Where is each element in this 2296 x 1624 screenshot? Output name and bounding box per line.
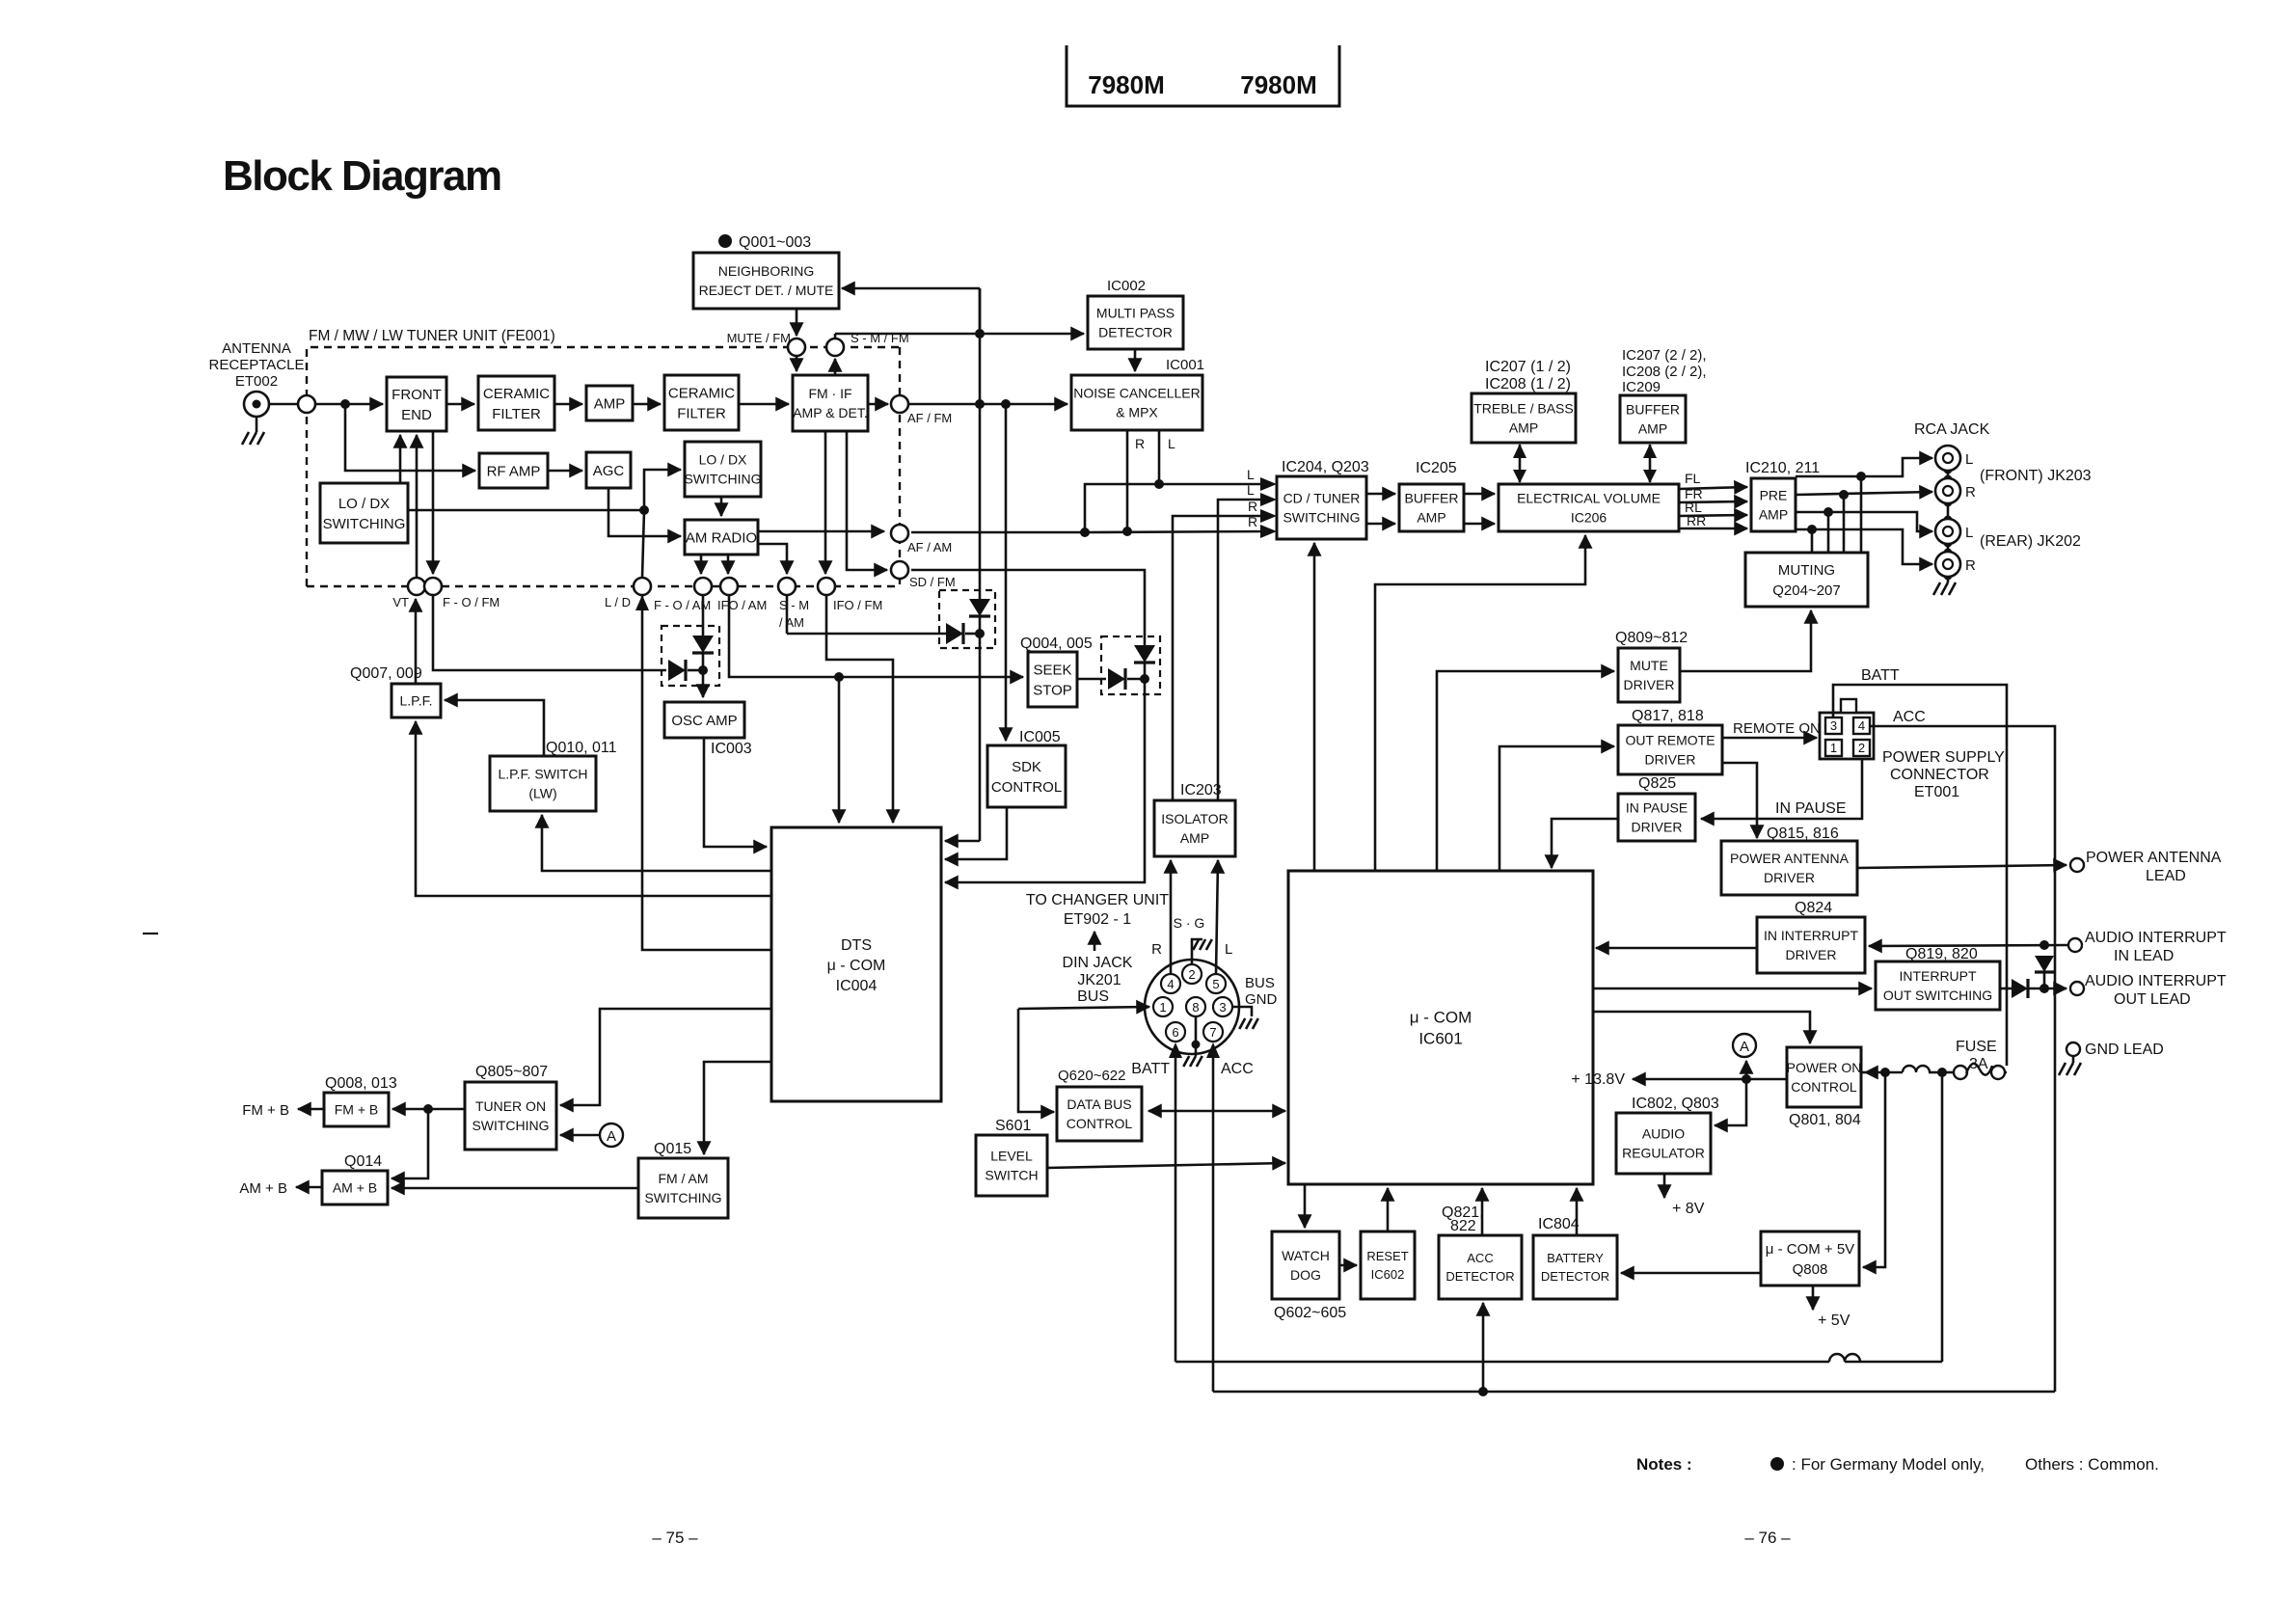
block MUTING Q204~207 [1745,553,1868,607]
wire FM-IF up to S-M/FM node [834,359,837,375]
svg-text:POWER SUPPLY: POWER SUPPLY [1882,749,2005,766]
wire IC601 to out remote driver [1499,746,1614,871]
arrow up to changer [1094,932,1096,951]
svg-text:BATT: BATT [1131,1061,1170,1077]
svg-text:PRE: PRE [1760,488,1788,503]
wire neighboring down to MUTE/FM node [796,309,798,336]
svg-text:– 76 –: – 76 – [1744,1529,1791,1547]
svg-text:POWER ANTENNA: POWER ANTENNA [1730,851,1850,866]
wire multipass down to noise canceller [1134,349,1137,371]
wire batt bus down [1941,1072,1944,1362]
svg-text:CERAMIC: CERAMIC [483,386,550,402]
lower ACC bus [1213,1391,2055,1394]
wire +8V out [1663,1174,1666,1198]
svg-text:7: 7 [1209,1025,1216,1040]
svg-text:RCA JACK: RCA JACK [1914,421,1990,438]
svg-text:AUDIO INTERRUPT: AUDIO INTERRUPT [2085,973,2227,989]
block POWER ANTENNA DRIVER [1721,841,1857,895]
svg-text:ELECTRICAL VOLUME: ELECTRICAL VOLUME [1517,491,1661,506]
svg-text:4: 4 [1167,977,1174,991]
wire reset to IC601 [1387,1188,1390,1232]
svg-text:ACC: ACC [1467,1251,1493,1265]
wire L/D node down to DTS [642,510,644,578]
wire F-O/FM from front end down [432,431,435,574]
svg-text:(LW): (LW) [528,786,556,801]
svg-text:VT: VT [392,595,409,609]
bullet Q001~003 label [718,234,732,248]
svg-text:STOP: STOP [1033,682,1072,698]
svg-text:ET002: ET002 [235,373,278,390]
svg-text:SWITCH: SWITCH [985,1168,1038,1183]
svg-text:μ - COM: μ - COM [827,958,886,974]
wire in pause driver to IC601 [1552,819,1618,868]
svg-text:FL: FL [1685,471,1701,486]
block SDK CONTROL [987,745,1066,807]
svg-text:Q010, 011: Q010, 011 [546,740,617,756]
tuner unit dashed boundary FE001 [307,347,900,586]
svg-text:R: R [1965,557,1976,574]
svg-text:IC602: IC602 [1371,1267,1405,1282]
wire am+b out [296,1186,322,1189]
svg-text:L.P.F. SWITCH: L.P.F. SWITCH [498,767,587,782]
svg-text:ET001: ET001 [1914,784,1959,800]
svg-text:BATTERY: BATTERY [1547,1251,1604,1265]
wire mute driver to muting [1680,610,1811,671]
svg-text:POWER ON: POWER ON [1787,1060,1862,1075]
wire IFO/AM to seek stop [727,555,730,574]
block L.P.F. SWITCH (LW) [490,756,596,811]
wire power antenna lead [1857,865,2066,868]
svg-text:IC804: IC804 [1538,1216,1580,1232]
svg-text:GND LEAD: GND LEAD [2085,1042,2164,1058]
svg-text:LO / DX: LO / DX [338,496,390,512]
svg-text:DRIVER: DRIVER [1624,677,1675,692]
block OSC AMP [664,702,744,738]
svg-text:L: L [1168,436,1175,451]
wire DTS to fm/am switching [704,1062,771,1154]
svg-text:DRIVER: DRIVER [1764,870,1815,885]
svg-text:FILTER: FILTER [492,406,541,422]
svg-text:OUT LEAD: OUT LEAD [2114,991,2191,1008]
ground antenna [256,417,258,432]
svg-text:AMP & DET.: AMP & DET. [793,405,868,420]
svg-text:FM + B: FM + B [335,1102,379,1118]
diode D1 vertical [692,636,714,653]
block WATCH DOG [1272,1232,1339,1299]
node VT [408,578,425,595]
svg-text:7980M: 7980M [1088,70,1165,99]
svg-text:R: R [1965,484,1976,501]
block IN PAUSE DRIVER [1618,794,1695,841]
node IFO/FM [818,578,835,595]
svg-text:LEAD: LEAD [2146,868,2186,884]
wire watch dog to reset [1339,1264,1357,1267]
node S-M/FM [826,338,844,356]
svg-text:AGC: AGC [593,463,625,479]
A node right [1733,1034,1756,1057]
svg-text:F - O / FM: F - O / FM [443,595,500,609]
svg-text:BUS: BUS [1245,975,1275,991]
wire cf2 to fmif [739,403,789,406]
wire rf amp feed [345,404,475,471]
wire lpf up to VT node [415,599,418,684]
svg-text:IC206: IC206 [1571,510,1607,526]
block TUNER ON SWITCHING [465,1082,556,1150]
svg-text:RECEPTACLE: RECEPTACLE [209,357,305,373]
svg-text:Q815, 816: Q815, 816 [1767,826,1839,842]
svg-text:CONTROL: CONTROL [991,779,1062,796]
svg-text:SWITCHING: SWITCHING [1283,510,1360,526]
svg-text:L: L [1965,451,1973,468]
svg-text:FM · IF: FM · IF [808,386,851,401]
svg-text:IN INTERRUPT: IN INTERRUPT [1764,928,1858,943]
node AF/AM [891,525,908,542]
svg-text:Block Diagram: Block Diagram [223,152,501,200]
block DTS u-COM IC004 [771,827,941,1101]
svg-text:Q809~812: Q809~812 [1615,630,1688,646]
svg-text:AUDIO INTERRUPT: AUDIO INTERRUPT [2085,930,2227,946]
wire fm/am switching to am+b [392,1187,638,1190]
svg-text:2: 2 [1188,967,1195,982]
gnd lead [2066,1042,2080,1056]
block FM +B [324,1093,389,1126]
wire SD/FM to diode D3 vertical [911,570,1145,645]
wire lpf switch to lpf [445,700,544,756]
diode from in lead down [2035,956,2054,972]
svg-text:1: 1 [1830,741,1837,755]
wire AF/FM to noise canceller [908,403,1067,406]
wire +5V out [1812,1286,1815,1310]
fuse and coil line into power on control [1861,1071,1865,1074]
rca jack front R [1935,478,1960,503]
upper BATT bus with coil [1175,1361,1829,1364]
block BATTERY DETECTOR [1533,1235,1617,1299]
wire rf amp to agc [548,470,582,473]
wires cd/tuner to buffer to elvol [1366,493,1395,496]
node L/D [634,578,651,595]
wire lo/dx top feedback to front end [399,435,402,483]
diode D3 vertical [1134,645,1155,663]
svg-text:DATA BUS: DATA BUS [1067,1096,1131,1112]
wire u-com5v to battery detector [1621,1272,1761,1275]
svg-text:AMP: AMP [1638,421,1667,437]
wire acc bus to acc detector [1482,1303,1485,1392]
din pins [1182,964,1202,984]
svg-text:LO / DX: LO / DX [699,452,747,468]
svg-text:Q007, 009: Q007, 009 [350,665,422,682]
wire F-O/AM down to diode D1 vertical [702,595,705,636]
svg-text:2: 2 [1858,741,1865,755]
svg-text:SWITCHING: SWITCHING [472,1118,549,1133]
block MULTI PASS DETECTOR [1088,296,1183,349]
wire tuner-on to fm+b [392,1108,465,1111]
block AM +B [322,1171,388,1204]
svg-text:3A: 3A [1969,1056,1988,1072]
wire +13.8V branch [1633,1078,1787,1081]
svg-text:Q808: Q808 [1793,1261,1828,1278]
svg-text:NOISE CANCELLER: NOISE CANCELLER [1073,386,1200,401]
svg-text:REMOTE ON: REMOTE ON [1733,720,1821,737]
svg-text:Q824: Q824 [1795,900,1832,916]
block L.P.F. [392,684,441,717]
svg-text:IC004: IC004 [836,978,878,994]
node AF/FM [891,395,908,413]
svg-text:1: 1 [1159,1000,1166,1015]
svg-text:L: L [1965,525,1973,541]
svg-text:IC207 (1 / 2): IC207 (1 / 2) [1485,359,1571,375]
svg-text:FRONT: FRONT [392,387,442,403]
svg-text:IC207 (2 / 2),: IC207 (2 / 2), [1622,347,1707,364]
svg-text:DOG: DOG [1290,1267,1321,1283]
block LO/DX SWITCHING left [320,483,408,543]
block ISOLATOR AMP [1154,800,1235,856]
block u-COM IC601 [1288,871,1593,1184]
wire MUTE/FM into FM-IF [796,356,798,371]
svg-text:Q825: Q825 [1638,775,1676,792]
wire down to audio regulator [1715,1079,1746,1125]
block BUFFER AMP mid [1399,484,1464,531]
rca ground chain [1947,470,1950,582]
svg-text:(FRONT) JK203: (FRONT) JK203 [1980,468,2092,484]
wire amp to cf2 [633,403,661,406]
svg-text:Q001~003: Q001~003 [739,234,811,251]
svg-text:ACC: ACC [1893,709,1926,725]
svg-text:MULTI PASS: MULTI PASS [1096,306,1175,321]
svg-text:IC205: IC205 [1416,460,1457,476]
svg-text:IC002: IC002 [1107,278,1146,294]
svg-text:IC208 (2 / 2),: IC208 (2 / 2), [1622,364,1707,380]
double arrows treble/bass and buffer to elvol [1519,445,1522,482]
svg-text:OSC AMP: OSC AMP [671,713,737,729]
wire up to A node [1745,1061,1748,1079]
wire diode D3 to DTS [945,679,1145,882]
wire remote on to connector [1722,737,1817,740]
wire in pause from connector [1701,759,1862,819]
block RF AMP [479,453,548,488]
wire antenna to front end [269,403,298,406]
svg-text:L.P.F.: L.P.F. [400,693,433,709]
svg-text:IFO / FM: IFO / FM [833,598,882,612]
wire AF/AM row to CD/TUNER R [758,530,884,533]
header tab 7980M [1067,45,1339,106]
svg-text:(REAR) JK202: (REAR) JK202 [1980,533,2081,550]
wire L line pin5 to isolator [1216,860,1218,974]
svg-text:SWITCHING: SWITCHING [644,1190,721,1205]
wire bus into pin1 [1018,1007,1149,1009]
wire BATT up into pin6 [1175,1045,1177,1362]
svg-text:MUTE: MUTE [1630,658,1668,673]
wire lo/dx right down to am radio [720,497,723,516]
svg-text:CONNECTOR: CONNECTOR [1890,767,1989,783]
block AGC [586,452,631,488]
svg-text:DRIVER: DRIVER [1786,947,1837,962]
svg-text:END: END [401,407,432,423]
block FRONT END [387,377,446,431]
block CERAMIC FILTER 2 [664,375,739,430]
block CERAMIC FILTER 1 [478,376,554,430]
block ELECTRICAL VOLUME IC206 [1499,484,1679,531]
wire to u-com+5v [1863,1072,1885,1267]
block BUFFER AMP right [1620,395,1686,443]
wire IC601 to watch dog [1304,1184,1307,1228]
svg-text:Q801, 804: Q801, 804 [1789,1112,1861,1128]
svg-text:RESET: RESET [1366,1249,1408,1263]
wire dts to lpf switch [542,815,771,871]
node S-M/AM [778,578,796,595]
svg-text:Q004, 005: Q004, 005 [1020,636,1093,652]
svg-text:S - M / FM: S - M / FM [851,331,909,345]
wire lo/dx left to node and branches [408,509,644,512]
svg-text:A: A [1740,1039,1749,1055]
block u-COM+5V Q808 [1761,1232,1859,1286]
svg-text:DIN JACK: DIN JACK [1063,955,1133,971]
wire vertical sig to DTS via diode box D2 [979,288,982,334]
wire bus to data bus control [1018,1009,1054,1112]
svg-text:/ AM: / AM [779,615,804,630]
block AUDIO REGULATOR [1616,1113,1711,1174]
svg-text:BUFFER: BUFFER [1626,402,1680,418]
wire interrupt out via diode [2000,988,2012,990]
wire fm+b out [298,1108,324,1111]
power supply connector ET001 [1820,713,1874,759]
wire in interrupt driver to IC601 [1596,947,1757,950]
svg-text:REGULATOR: REGULATOR [1622,1146,1705,1161]
svg-text:IN PAUSE: IN PAUSE [1775,800,1847,817]
svg-text:R: R [1248,499,1257,514]
svg-text:7980M: 7980M [1240,70,1317,99]
svg-text:+ 5V: + 5V [1818,1313,1850,1329]
wire front end to ceramic filter [446,403,474,406]
block RESET IC602 [1361,1232,1415,1299]
svg-text:TREBLE / BASS: TREBLE / BASS [1473,401,1573,417]
block NOISE CANCELLER & MPX [1071,375,1202,430]
svg-text:AUDIO: AUDIO [1642,1126,1685,1142]
block IN INTERRUPT DRIVER [1757,917,1865,973]
svg-text:SWITCHING: SWITCHING [323,516,406,532]
svg-text:– 75 –: – 75 – [652,1529,698,1547]
wire acc detector to IC601 [1481,1188,1484,1235]
svg-text:ANTENNA: ANTENNA [222,340,291,357]
wire fmif to AF/FM node [868,403,888,406]
dashed diode box D1 [662,626,719,686]
svg-text:DETECTOR: DETECTOR [1541,1269,1609,1284]
svg-text:: For Germany Model only,: : For Germany Model only, [1792,1455,1985,1474]
wire branch down to DTS [838,677,841,823]
wire neighboring feed from S-M line [842,287,980,290]
wire AM RADIO to F-O/AM IFO/AM [700,555,703,574]
svg-text:IC210, 211: IC210, 211 [1745,460,1820,476]
svg-text:8: 8 [1192,1000,1199,1015]
svg-text:MUTING: MUTING [1778,562,1835,579]
wire noise canceller R L outputs [1126,430,1129,531]
block INTERRUPT OUT SWITCHING [1876,961,2000,1010]
wires elvol to preamp FL FR RL RR [1679,487,1747,489]
din jack JK201 circle [1145,960,1239,1054]
svg-text:AF / AM: AF / AM [907,540,952,555]
svg-text:SD / FM: SD / FM [909,575,956,589]
block AMP [586,386,633,420]
wire DTS to tuner-on switching [560,1009,771,1105]
svg-text:L / D: L / D [605,595,631,609]
svg-text:Q014: Q014 [344,1153,382,1170]
svg-text:Others : Common.: Others : Common. [2025,1455,2159,1474]
wire dts to lpf [416,721,771,896]
svg-text:5: 5 [1212,977,1219,991]
wire IC601 to power on control [1593,1012,1810,1043]
svg-text:OUT SWITCHING: OUT SWITCHING [1883,988,1992,1003]
svg-text:IC802, Q803: IC802, Q803 [1632,1096,1719,1112]
wire ACC from pin4 [1870,726,2055,1392]
svg-text:DRIVER: DRIVER [1632,820,1683,835]
svg-text:DETECTOR: DETECTOR [1098,325,1173,340]
dashed diode box D2 [939,590,995,648]
svg-text:L: L [1225,941,1232,958]
svg-text:DETECTOR: DETECTOR [1445,1269,1514,1284]
node MUTE/FM [788,338,805,356]
svg-text:DRIVER: DRIVER [1645,752,1696,768]
svg-text:RF AMP: RF AMP [487,463,541,479]
wire IFO/FM to DTS [824,431,827,574]
wire R line pin4 to isolator [1170,860,1173,974]
svg-text:IFO / AM: IFO / AM [717,598,767,612]
svg-text:IC204, Q203: IC204, Q203 [1282,459,1369,475]
diode D3 horizontal [1108,668,1125,690]
rca jack rear R [1935,552,1960,577]
svg-text:& MPX: & MPX [1116,405,1158,420]
svg-text:AM + B: AM + B [333,1180,377,1196]
block DATA BUS CONTROL [1057,1087,1142,1141]
svg-text:Q204~207: Q204~207 [1772,582,1840,599]
svg-text:S - M: S - M [779,598,809,612]
svg-text:Q817, 818: Q817, 818 [1632,708,1704,724]
block AM RADIO [685,520,758,555]
ground pin8 [1195,1016,1198,1056]
svg-text:FUSE: FUSE [1956,1039,1997,1055]
svg-text:MUTE / FM: MUTE / FM [727,331,791,345]
svg-text:Q620~622: Q620~622 [1058,1068,1125,1084]
svg-text:BUFFER: BUFFER [1405,491,1459,506]
bus gnd from pin3 [1232,1007,1252,1016]
dashed diode box D3 [1101,636,1160,694]
wire diode to osc amp [702,670,705,697]
svg-text:Q602~605: Q602~605 [1274,1305,1346,1321]
wire agc to am radio [608,488,681,536]
svg-text:CONTROL: CONTROL [1791,1079,1857,1095]
svg-text:FM + B: FM + B [242,1102,289,1119]
svg-text:IC003: IC003 [711,741,752,757]
svg-text:A: A [607,1128,616,1145]
wire IC601 to mute driver [1437,671,1614,871]
wire level switch to IC601 [1047,1163,1285,1168]
svg-text:CONTROL: CONTROL [1067,1116,1133,1131]
svg-text:SDK: SDK [1012,759,1041,775]
svg-text:S601: S601 [995,1118,1031,1134]
svg-text:JK201: JK201 [1077,972,1121,988]
svg-text:AF / FM: AF / FM [907,411,952,425]
wire osc amp to DTS [704,738,767,847]
wire S-M/FM to multi pass detector [835,333,1084,336]
svg-text:ACC: ACC [1221,1061,1254,1077]
svg-text:AMP: AMP [1759,507,1788,523]
node F-O/FM [424,578,442,595]
wire out remote to power antenna driver [1722,763,1757,838]
S-G bracket and ground [1192,939,1202,966]
svg-text:Q805~807: Q805~807 [475,1064,548,1080]
svg-text:BUS: BUS [1077,988,1109,1005]
block SEEK STOP [1028,652,1077,707]
svg-text:AM RADIO: AM RADIO [686,529,757,546]
block ACC DETECTOR [1439,1235,1522,1299]
